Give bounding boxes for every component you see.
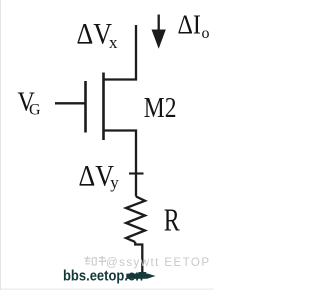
svg-text:G: G — [29, 102, 41, 119]
svg-text:x: x — [109, 33, 118, 52]
svg-text:M2: M2 — [144, 92, 177, 124]
svg-text:ΔV: ΔV — [77, 18, 112, 51]
svg-text:ΔI: ΔI — [178, 9, 201, 40]
svg-text:ΔV: ΔV — [79, 160, 114, 193]
svg-text:o: o — [202, 25, 210, 42]
svg-text:y: y — [110, 173, 119, 192]
svg-text:R: R — [164, 203, 180, 238]
